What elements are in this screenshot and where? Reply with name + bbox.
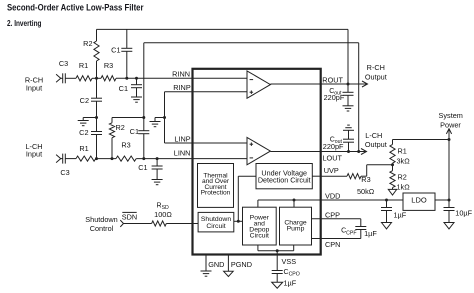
svg-text:Second-Order Active Low-Pass F: Second-Order Active Low-Pass Filter <box>7 3 144 13</box>
svg-text:C1: C1 <box>119 84 128 93</box>
svg-text:1µF: 1µF <box>394 211 407 220</box>
svg-text:50kΩ: 50kΩ <box>357 187 375 196</box>
svg-text:LINN: LINN <box>174 149 191 158</box>
svg-text:GND: GND <box>208 260 224 269</box>
svg-text:C3: C3 <box>59 59 68 68</box>
svg-text:Control: Control <box>90 224 114 233</box>
svg-text:R1: R1 <box>79 61 88 70</box>
svg-text:VSS: VSS <box>282 257 297 266</box>
svg-text:Output: Output <box>365 140 387 149</box>
svg-text:Circuit: Circuit <box>250 232 269 239</box>
svg-text:Protection: Protection <box>201 190 231 197</box>
svg-text:VDD: VDD <box>325 191 340 200</box>
svg-text:C3: C3 <box>60 168 69 177</box>
svg-text:Input: Input <box>26 84 42 93</box>
svg-text:R-CH: R-CH <box>367 63 385 72</box>
svg-text:PGND: PGND <box>231 260 252 269</box>
svg-text:L-CH: L-CH <box>365 131 382 140</box>
svg-text:System: System <box>439 111 463 120</box>
svg-text:220pF: 220pF <box>323 142 344 151</box>
svg-text:C1: C1 <box>138 163 147 172</box>
svg-text:LDO: LDO <box>411 196 427 205</box>
svg-text:R2: R2 <box>116 123 125 132</box>
svg-text:UVP: UVP <box>324 166 339 175</box>
svg-text:1µF: 1µF <box>364 229 377 238</box>
svg-text:LINP: LINP <box>174 135 190 144</box>
svg-text:C2: C2 <box>80 96 89 105</box>
svg-text:SDN: SDN <box>122 212 137 221</box>
svg-text:Pump: Pump <box>287 226 305 233</box>
svg-text:Shutdown: Shutdown <box>85 215 117 224</box>
svg-text:2. Inverting: 2. Inverting <box>7 18 42 28</box>
svg-text:Detection Circuit: Detection Circuit <box>258 176 311 185</box>
svg-text:CPN: CPN <box>325 240 340 249</box>
svg-text:C2: C2 <box>79 128 88 137</box>
svg-text:Shutdown: Shutdown <box>201 216 231 223</box>
svg-text:100Ω: 100Ω <box>154 210 172 219</box>
svg-text:R3: R3 <box>104 61 113 70</box>
svg-text:Input: Input <box>26 150 42 159</box>
svg-text:LOUT: LOUT <box>323 153 343 162</box>
svg-text:1kΩ: 1kΩ <box>397 183 411 192</box>
svg-text:C1: C1 <box>111 45 120 54</box>
svg-text:Output: Output <box>365 72 387 81</box>
svg-text:RINN: RINN <box>172 69 190 78</box>
svg-text:ROUT: ROUT <box>322 75 343 84</box>
svg-text:RINP: RINP <box>173 83 191 92</box>
svg-text:10µF: 10µF <box>455 208 472 217</box>
svg-text:Power: Power <box>440 121 461 130</box>
svg-text:220pF: 220pF <box>324 93 345 102</box>
svg-text:R3: R3 <box>121 141 130 150</box>
svg-text:1µF: 1µF <box>284 278 297 287</box>
svg-text:3kΩ: 3kΩ <box>397 156 411 165</box>
svg-text:C1: C1 <box>130 127 139 136</box>
svg-text:R1: R1 <box>398 147 407 156</box>
svg-text:R2: R2 <box>83 39 92 48</box>
svg-text:R1: R1 <box>79 144 88 153</box>
svg-text:CPP: CPP <box>325 210 340 219</box>
svg-text:R2: R2 <box>398 173 407 182</box>
svg-text:Circuit: Circuit <box>206 223 225 230</box>
